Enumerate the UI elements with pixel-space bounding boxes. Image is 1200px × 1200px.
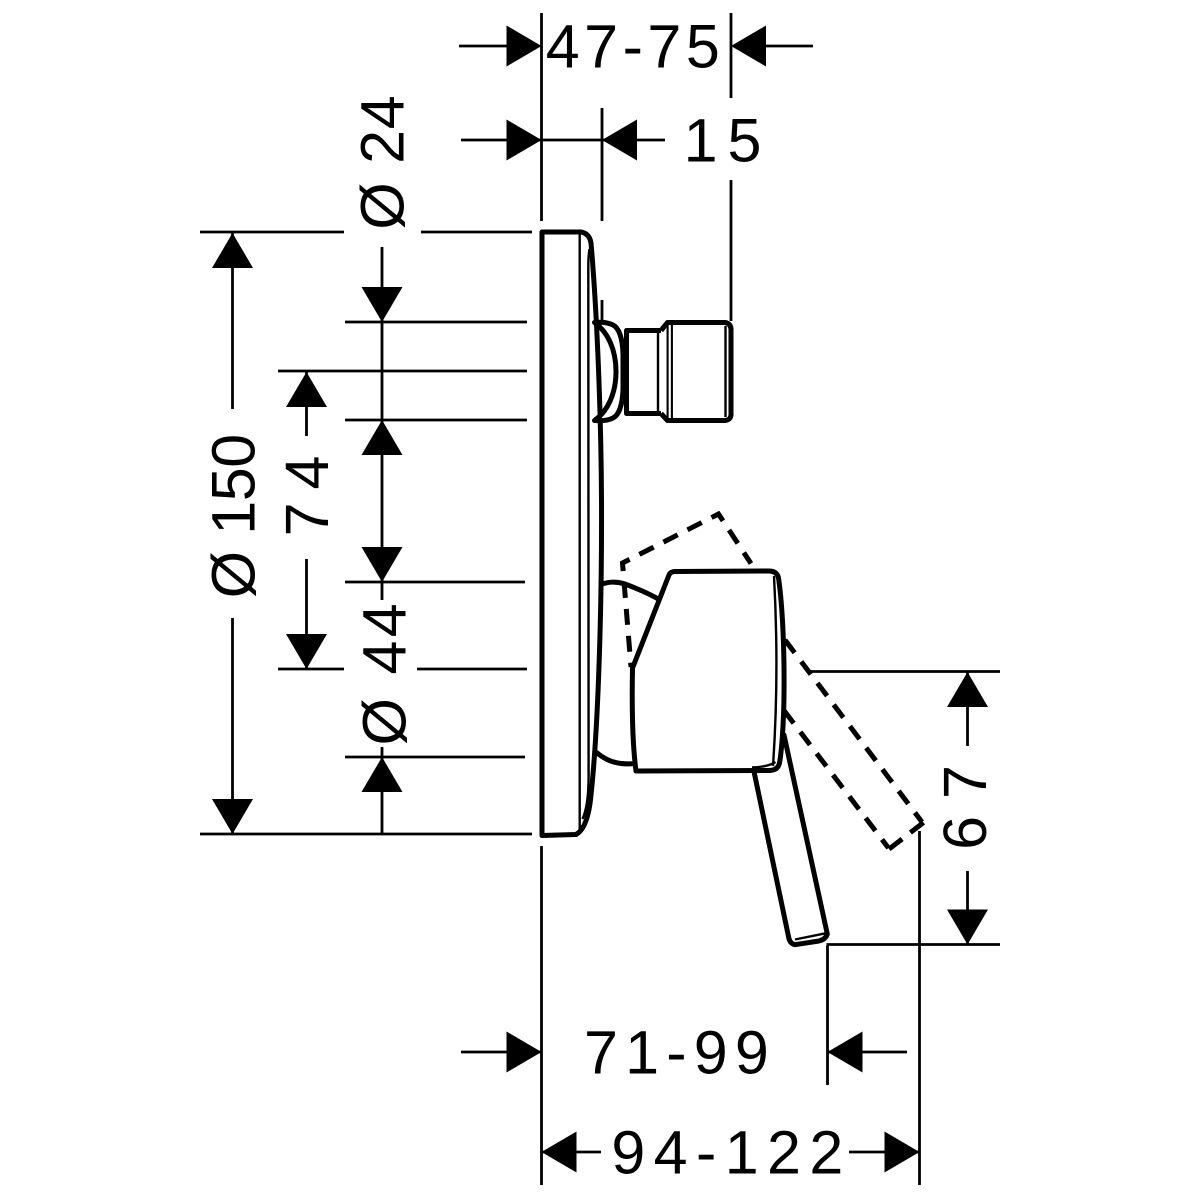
svg-text:15: 15 xyxy=(684,107,772,175)
svg-text:71-99: 71-99 xyxy=(584,1019,776,1087)
svg-text:67: 67 xyxy=(931,748,999,850)
svg-text:Ø 150: Ø 150 xyxy=(200,434,268,598)
svg-text:94-122: 94-122 xyxy=(611,1119,851,1187)
svg-text:Ø 24: Ø 24 xyxy=(349,95,417,230)
svg-text:74: 74 xyxy=(273,443,341,537)
svg-text:Ø 44: Ø 44 xyxy=(351,600,419,745)
svg-text:47-75: 47-75 xyxy=(546,13,725,81)
